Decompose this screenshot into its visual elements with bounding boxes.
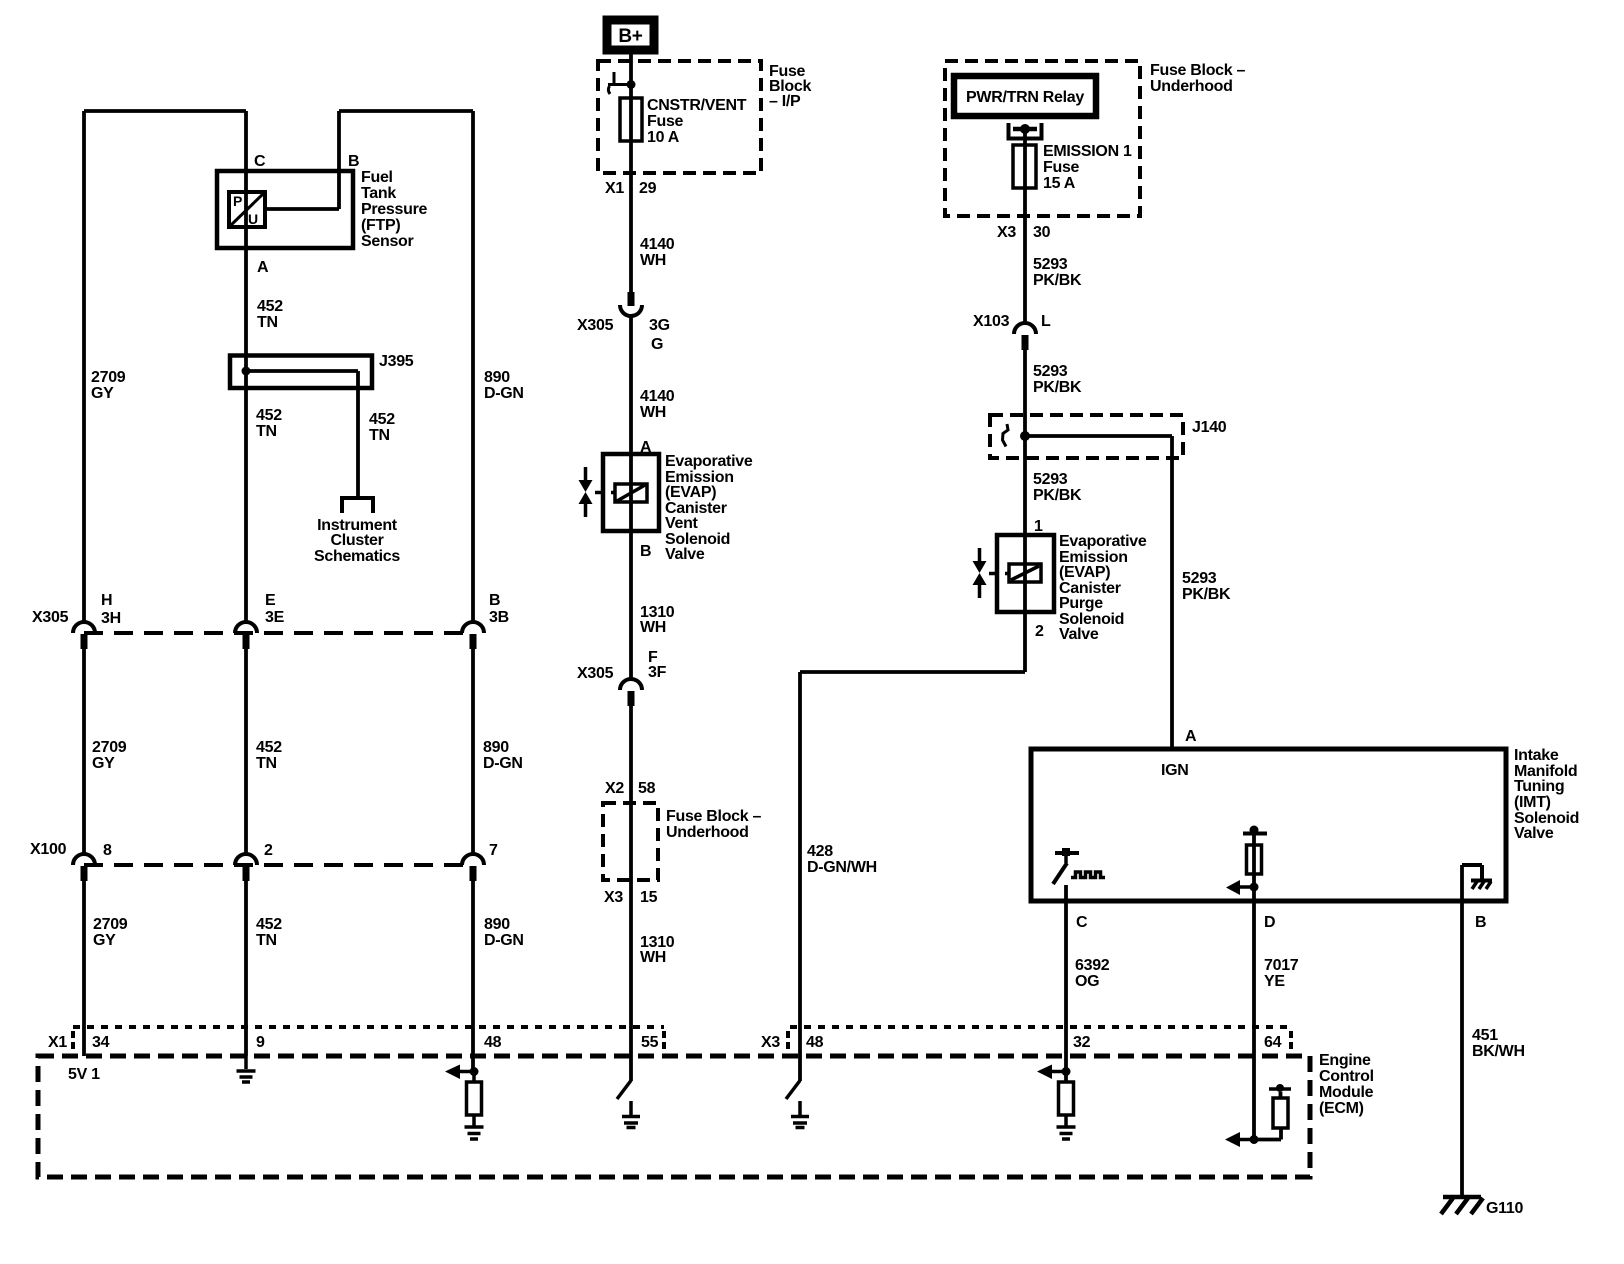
svg-text:Evaporative: Evaporative bbox=[1059, 533, 1147, 550]
svg-text:Schematics: Schematics bbox=[314, 548, 400, 565]
svg-text:OG: OG bbox=[1075, 973, 1099, 990]
svg-text:CNSTR/VENT: CNSTR/VENT bbox=[647, 97, 747, 114]
svg-text:4140: 4140 bbox=[640, 388, 675, 405]
svg-text:6392: 6392 bbox=[1075, 957, 1110, 974]
svg-text:D-GN/WH: D-GN/WH bbox=[807, 859, 877, 876]
svg-text:8: 8 bbox=[103, 842, 112, 859]
svg-text:1: 1 bbox=[1034, 518, 1043, 535]
svg-text:890: 890 bbox=[483, 739, 509, 756]
svg-text:9: 9 bbox=[256, 1034, 265, 1051]
svg-text:TN: TN bbox=[256, 932, 277, 949]
svg-text:Engine: Engine bbox=[1319, 1052, 1371, 1069]
svg-text:A: A bbox=[640, 439, 652, 456]
svg-text:Tuning: Tuning bbox=[1514, 778, 1564, 795]
svg-text:5293: 5293 bbox=[1033, 363, 1068, 380]
svg-text:PWR/TRN Relay: PWR/TRN Relay bbox=[966, 89, 1084, 106]
svg-text:X2: X2 bbox=[605, 780, 624, 797]
svg-text:48: 48 bbox=[484, 1034, 502, 1051]
svg-text:GY: GY bbox=[92, 755, 115, 772]
svg-text:D: D bbox=[1264, 914, 1275, 931]
svg-text:Tank: Tank bbox=[361, 185, 396, 202]
svg-text:BK/WH: BK/WH bbox=[1472, 1043, 1525, 1060]
svg-text:Intake: Intake bbox=[1514, 747, 1559, 764]
svg-text:452: 452 bbox=[256, 407, 282, 424]
svg-text:X1: X1 bbox=[605, 180, 624, 197]
svg-text:(EVAP): (EVAP) bbox=[1059, 564, 1110, 581]
svg-text:48: 48 bbox=[806, 1034, 824, 1051]
svg-text:Evaporative: Evaporative bbox=[665, 453, 753, 470]
svg-text:32: 32 bbox=[1073, 1034, 1091, 1051]
svg-text:64: 64 bbox=[1264, 1034, 1282, 1051]
svg-text:G: G bbox=[651, 336, 663, 353]
svg-text:WH: WH bbox=[640, 252, 666, 269]
svg-text:Control: Control bbox=[1319, 1068, 1374, 1085]
svg-text:Pressure: Pressure bbox=[361, 201, 427, 218]
svg-text:X305: X305 bbox=[32, 609, 69, 626]
svg-text:34: 34 bbox=[92, 1034, 110, 1051]
svg-text:X3: X3 bbox=[761, 1034, 780, 1051]
svg-text:B: B bbox=[489, 592, 500, 609]
svg-text:PK/BK: PK/BK bbox=[1182, 586, 1231, 603]
svg-text:X3: X3 bbox=[997, 224, 1016, 241]
svg-text:TN: TN bbox=[257, 314, 278, 331]
svg-text:D-GN: D-GN bbox=[483, 755, 523, 772]
svg-text:5V 1: 5V 1 bbox=[68, 1066, 100, 1083]
svg-text:TN: TN bbox=[256, 423, 277, 440]
svg-text:P: P bbox=[233, 193, 242, 209]
svg-text:WH: WH bbox=[640, 949, 666, 966]
svg-text:(EVAP): (EVAP) bbox=[665, 484, 716, 501]
svg-text:7017: 7017 bbox=[1264, 957, 1299, 974]
svg-text:(IMT): (IMT) bbox=[1514, 794, 1551, 811]
svg-text:15: 15 bbox=[640, 889, 658, 906]
svg-text:TN: TN bbox=[369, 427, 390, 444]
svg-text:B: B bbox=[640, 543, 651, 560]
svg-text:A: A bbox=[257, 259, 269, 276]
svg-text:890: 890 bbox=[484, 369, 510, 386]
svg-text:451: 451 bbox=[1472, 1027, 1498, 1044]
svg-text:452: 452 bbox=[257, 298, 283, 315]
svg-text:YE: YE bbox=[1264, 973, 1285, 990]
svg-text:Underhood: Underhood bbox=[666, 824, 749, 841]
svg-text:29: 29 bbox=[639, 180, 657, 197]
svg-text:A: A bbox=[1185, 728, 1197, 745]
svg-text:58: 58 bbox=[638, 780, 656, 797]
svg-text:Underhood: Underhood bbox=[1150, 78, 1233, 95]
svg-text:Fuel: Fuel bbox=[361, 169, 393, 186]
svg-text:B+: B+ bbox=[618, 26, 642, 47]
svg-text:X305: X305 bbox=[577, 317, 614, 334]
svg-text:TN: TN bbox=[256, 755, 277, 772]
svg-text:Vent: Vent bbox=[665, 515, 699, 532]
svg-text:Module: Module bbox=[1319, 1084, 1374, 1101]
svg-text:30: 30 bbox=[1033, 224, 1051, 241]
svg-text:452: 452 bbox=[256, 739, 282, 756]
svg-text:7: 7 bbox=[489, 842, 498, 859]
svg-text:D-GN: D-GN bbox=[484, 385, 524, 402]
svg-text:X305: X305 bbox=[577, 665, 614, 682]
svg-text:Sensor: Sensor bbox=[361, 233, 414, 250]
svg-text:452: 452 bbox=[256, 916, 282, 933]
svg-text:PK/BK: PK/BK bbox=[1033, 272, 1082, 289]
svg-text:5293: 5293 bbox=[1033, 471, 1068, 488]
svg-text:2709: 2709 bbox=[91, 369, 126, 386]
svg-text:WH: WH bbox=[640, 619, 666, 636]
svg-text:Fuse Block –: Fuse Block – bbox=[666, 808, 762, 825]
svg-text:C: C bbox=[1076, 914, 1088, 931]
svg-text:U: U bbox=[248, 211, 258, 227]
svg-text:15 A: 15 A bbox=[1043, 175, 1076, 192]
svg-text:X100: X100 bbox=[30, 841, 67, 858]
svg-text:EMISSION 1: EMISSION 1 bbox=[1043, 143, 1132, 160]
svg-text:452: 452 bbox=[369, 411, 395, 428]
svg-text:Cluster: Cluster bbox=[330, 532, 383, 549]
svg-text:3B: 3B bbox=[489, 609, 509, 626]
svg-text:4140: 4140 bbox=[640, 236, 675, 253]
svg-text:5293: 5293 bbox=[1033, 256, 1068, 273]
svg-text:– I/P: – I/P bbox=[769, 93, 801, 110]
svg-text:Valve: Valve bbox=[1059, 626, 1099, 643]
svg-text:IGN: IGN bbox=[1161, 762, 1189, 779]
svg-text:GY: GY bbox=[91, 385, 114, 402]
svg-text:WH: WH bbox=[640, 404, 666, 421]
svg-text:(ECM): (ECM) bbox=[1319, 1100, 1364, 1117]
svg-text:Purge: Purge bbox=[1059, 595, 1103, 612]
svg-text:G110: G110 bbox=[1486, 1200, 1523, 1217]
svg-text:10 A: 10 A bbox=[647, 129, 680, 146]
svg-text:(FTP): (FTP) bbox=[361, 217, 400, 234]
svg-text:Fuse: Fuse bbox=[647, 113, 684, 130]
svg-text:X103: X103 bbox=[973, 313, 1010, 330]
svg-text:L: L bbox=[1041, 313, 1051, 330]
svg-text:B: B bbox=[348, 153, 359, 170]
svg-text:Valve: Valve bbox=[1514, 825, 1554, 842]
svg-text:B: B bbox=[1475, 914, 1486, 931]
svg-text:3E: 3E bbox=[265, 609, 285, 626]
svg-text:3G: 3G bbox=[649, 317, 670, 334]
svg-text:Fuse Block –: Fuse Block – bbox=[1150, 62, 1246, 79]
svg-text:55: 55 bbox=[641, 1034, 659, 1051]
svg-text:3F: 3F bbox=[648, 664, 667, 681]
svg-text:3H: 3H bbox=[101, 610, 121, 627]
svg-text:2709: 2709 bbox=[93, 916, 128, 933]
svg-text:428: 428 bbox=[807, 843, 833, 860]
svg-text:D-GN: D-GN bbox=[484, 932, 524, 949]
svg-text:PK/BK: PK/BK bbox=[1033, 379, 1082, 396]
svg-text:2709: 2709 bbox=[92, 739, 127, 756]
svg-text:X1: X1 bbox=[48, 1034, 67, 1051]
svg-text:X3: X3 bbox=[604, 889, 623, 906]
svg-text:H: H bbox=[101, 592, 112, 609]
svg-text:2: 2 bbox=[1035, 623, 1044, 640]
svg-text:GY: GY bbox=[93, 932, 116, 949]
svg-text:PK/BK: PK/BK bbox=[1033, 487, 1082, 504]
svg-text:E: E bbox=[265, 592, 276, 609]
svg-text:J140: J140 bbox=[1192, 419, 1227, 436]
svg-text:C: C bbox=[254, 153, 266, 170]
svg-text:2: 2 bbox=[264, 842, 273, 859]
svg-text:J395: J395 bbox=[379, 353, 414, 370]
svg-text:Fuse: Fuse bbox=[1043, 159, 1080, 176]
svg-text:Valve: Valve bbox=[665, 546, 705, 563]
svg-text:890: 890 bbox=[484, 916, 510, 933]
svg-text:5293: 5293 bbox=[1182, 570, 1217, 587]
